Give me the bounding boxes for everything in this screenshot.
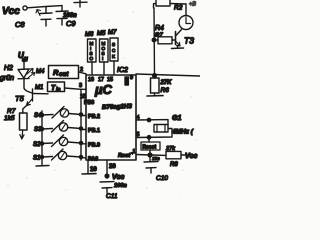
switch S4 — [34, 107, 100, 121]
svg-text:M7: M7 — [108, 30, 117, 36]
svg-text:18: 18 — [88, 77, 94, 83]
switch S2 — [33, 135, 100, 149]
svg-text:out: out — [59, 72, 69, 78]
connector pin M6 / MISO box — [85, 32, 96, 74]
svg-text:R4: R4 — [155, 25, 164, 32]
svg-text:1k5: 1k5 — [4, 115, 15, 122]
pin 10 / ground — [82, 160, 97, 174]
svg-text:4k7: 4k7 — [154, 33, 164, 39]
svg-text:Vcc: Vcc — [112, 174, 125, 181]
svg-text:C11: C11 — [106, 193, 118, 200]
svg-text:C9: C9 — [66, 19, 76, 28]
svg-text:I: I — [102, 56, 103, 61]
resistor R4 4k7 — [154, 25, 176, 44]
svg-text:15: 15 — [107, 77, 113, 83]
transistor T3 — [172, 4, 195, 49]
connector pin M5 / MOSI box — [97, 31, 108, 74]
wire pin 3 — [65, 83, 87, 89]
svg-text:B76ag2H3: B76ag2H3 — [102, 103, 133, 111]
svg-text:in: in — [56, 87, 60, 93]
svg-text:C: C — [112, 48, 116, 53]
pin 15 / PB3 label — [80, 94, 94, 106]
svg-text:27k: 27k — [165, 146, 176, 152]
wire right supply rail (vertical) — [153, 8, 156, 76]
LED H2 gruen — [0, 62, 35, 88]
reset box — [141, 142, 160, 155]
connector pin M7 / SCK box — [108, 30, 118, 74]
svg-text:1: 1 — [133, 149, 136, 155]
capacitor C11 100n — [100, 182, 127, 200]
crystal G1 4MHz — [154, 115, 194, 136]
svg-text:IC2: IC2 — [117, 67, 128, 74]
svg-text:M1: M1 — [35, 85, 43, 91]
wire horizontal from IC pin — [136, 74, 200, 76]
resistor R7 1k5 — [4, 106, 27, 140]
svg-text:Vcc: Vcc — [2, 6, 20, 17]
capacitor C10 — [144, 155, 168, 182]
pin 20 / Vcc node — [105, 160, 124, 181]
svg-text:10: 10 — [90, 167, 97, 173]
resistor R6 27K — [147, 76, 172, 97]
wire stub (cut at top edge) — [74, 0, 87, 7]
pin 5 XTAL wire — [136, 129, 172, 143]
pin 1 Reset — [118, 149, 150, 159]
svg-text:10n: 10n — [152, 156, 160, 161]
svg-text:PB.0: PB.0 — [88, 143, 100, 149]
node M1 / register box Tin — [35, 82, 65, 93]
node junction — [153, 74, 157, 78]
node reset junction — [148, 153, 152, 157]
svg-text:100n: 100n — [114, 183, 127, 189]
svg-text:Vcc: Vcc — [185, 153, 198, 160]
svg-text:R7: R7 — [7, 108, 16, 115]
wire pin 2 — [79, 67, 87, 74]
svg-text:PB3: PB3 — [84, 100, 94, 106]
svg-text:S: S — [112, 42, 115, 47]
svg-text:K: K — [112, 54, 116, 59]
terminal UN — [18, 51, 28, 63]
svg-text:17: 17 — [98, 77, 104, 83]
switch bus (right, to IC) — [80, 89, 82, 160]
svg-text:R6: R6 — [161, 87, 170, 94]
svg-text:grün: grün — [0, 75, 14, 82]
switch bus (left) — [41, 111, 43, 165]
svg-text:R2: R2 — [174, 5, 183, 12]
svg-text:2: 2 — [80, 67, 83, 73]
svg-text:C8: C8 — [15, 20, 25, 29]
svg-text:µC: µC — [94, 82, 112, 97]
svg-text:3: 3 — [79, 83, 82, 89]
switch S3 — [34, 121, 100, 135]
svg-text:S1: S1 — [33, 156, 40, 162]
power label Vcc (top left) — [2, 6, 27, 17]
svg-text:27K: 27K — [160, 80, 173, 86]
svg-text:PA6: PA6 — [88, 157, 98, 163]
node R4 junction — [152, 38, 156, 42]
svg-text:C10: C10 — [156, 175, 168, 182]
svg-text:PB.1: PB.1 — [88, 128, 100, 134]
capacitor C8 — [15, 7, 52, 29]
svg-text:H2: H2 — [4, 65, 13, 72]
svg-text:R8: R8 — [170, 162, 178, 168]
ground (switch bus) — [36, 165, 49, 168]
svg-text:+B: +B — [189, 2, 196, 8]
switch S1 — [33, 149, 98, 163]
resistor R8 27k — [152, 146, 198, 168]
svg-text:4MHz (: 4MHz ( — [171, 129, 194, 136]
svg-text:M4: M4 — [36, 69, 45, 75]
svg-text:G1: G1 — [172, 115, 181, 122]
resistor R2 (cut at top edge) — [154, 0, 197, 12]
svg-text:9: 9 — [130, 75, 133, 81]
svg-text:O: O — [90, 56, 94, 61]
svg-text:T3: T3 — [184, 36, 194, 46]
svg-text:M6: M6 — [85, 32, 94, 38]
svg-text:M5: M5 — [97, 31, 106, 37]
svg-text:20: 20 — [109, 164, 116, 170]
pin 9 mark — [125, 75, 133, 85]
wire Vcc rail — [27, 6, 62, 8]
svg-text:T5: T5 — [15, 94, 25, 103]
op IC2 microcontroller body — [86, 67, 136, 160]
transistor T5 — [15, 88, 48, 106]
node M4 / register box Rout — [36, 66, 79, 79]
pin 4 XTAL wire — [136, 115, 168, 125]
capacitor C9 100n — [56, 6, 77, 28]
svg-text:PB.2: PB.2 — [88, 114, 100, 120]
